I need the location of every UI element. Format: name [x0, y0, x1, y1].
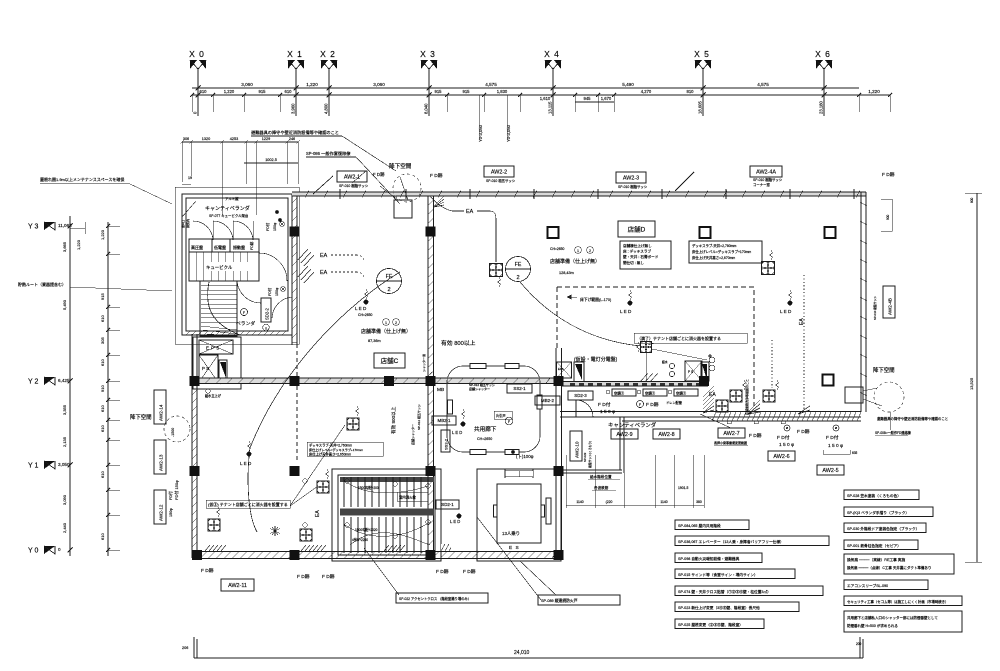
svg-text:給水階段位置: 給水階段位置: [590, 474, 612, 479]
svg-text:CH=2650: CH=2650: [358, 313, 373, 317]
svg-text:AW2-10: AW2-10: [575, 441, 580, 458]
svg-text:F D跡: F D跡: [322, 573, 335, 580]
fan note box (two lines): [844, 554, 954, 574]
dimension line row 1: [192, 87, 859, 89]
counterweight: [546, 498, 551, 524]
svg-text:610: 610: [200, 89, 208, 94]
left dimension chain 1: [69, 216, 71, 556]
smoke barrier note (two lines): [844, 611, 962, 632]
svg-text:1 5 0 φ: 1 5 0 φ: [828, 443, 843, 449]
common corridor boundary (rounded): [447, 366, 540, 452]
svg-text:EA: EA: [320, 270, 328, 276]
legend item: [675, 586, 823, 596]
svg-text:L E D: L E D: [355, 306, 367, 311]
bottom wall: [192, 551, 560, 553]
svg-text:AW2-12: AW2-12: [159, 504, 164, 521]
svg-text:SP-010 樹脂サッシ: SP-010 樹脂サッシ: [618, 184, 648, 189]
svg-text:FD付: FD付: [265, 222, 270, 231]
svg-text:F D跡: F D跡: [373, 171, 385, 178]
svg-text:SP-023 新仕上げ変更（3④⑤壁、階段室）長尺他: SP-023 新仕上げ変更（3④⑤壁、階段室）長尺他: [678, 605, 760, 610]
stair interior label box: [397, 492, 428, 501]
svg-text:SP-025 屋根変更（②③⑤壁、階段室）: SP-025 屋根変更（②③⑤壁、階段室）: [678, 622, 743, 627]
AW2-10 rotated label: [570, 431, 582, 461]
svg-text:FD付 150φ: FD付 150φ: [173, 480, 179, 500]
svg-text:SS2-2: SS2-2: [444, 438, 449, 450]
AW2-3 label: [616, 172, 646, 183]
svg-text:F D跡: F D跡: [882, 171, 895, 178]
svg-text:F: F: [243, 311, 245, 315]
svg-text:空調①: 空調①: [676, 391, 687, 396]
legend item: [675, 619, 764, 629]
shop C lamp: [365, 289, 368, 299]
shop C circled numbers: [383, 319, 390, 326]
svg-text:0: 0: [58, 547, 61, 552]
svg-text:3,960: 3,960: [291, 103, 296, 114]
AW2-14 rotated label: [154, 390, 166, 424]
svg-text:1: 1: [385, 321, 387, 325]
svg-text:FD付: FD付: [168, 491, 173, 500]
svg-text:F D跡: F D跡: [646, 401, 659, 408]
svg-text:低電盤: 低電盤: [214, 244, 226, 250]
svg-text:1,830: 1,830: [497, 89, 508, 94]
svg-text:CH=2650: CH=2650: [477, 437, 492, 441]
svg-text:Y 3: Y 3: [28, 224, 38, 231]
svg-text:Y 0: Y 0: [28, 548, 38, 555]
svg-text:23,180: 23,180: [819, 101, 824, 114]
svg-text:E P S: E P S: [206, 346, 220, 351]
svg-text:避難器具の降守や壁近消防設備等や確認のこと: 避難器具の降守や壁近消防設備等や確認のこと: [877, 416, 948, 421]
svg-text:床仕上げレベル=デッキスラブ+170mm: 床仕上げレベル=デッキスラブ+170mm: [309, 447, 363, 452]
svg-text:EA: EA: [320, 253, 328, 259]
svg-text:305: 305: [100, 337, 105, 344]
svg-text:610: 610: [100, 533, 105, 540]
legend item: [675, 602, 799, 612]
svg-text:1140: 1140: [660, 500, 667, 504]
svg-text:SP-074 壁・天井クロス貼替（①②③④壁・柱位置3㎡）: SP-074 壁・天井クロス貼替（①②③④壁・柱位置3㎡）: [678, 589, 771, 594]
svg-text:SP-028 笠木塗装（くろもの色）: SP-028 笠木塗装（くろもの色）: [847, 493, 901, 498]
svg-text:SS2-1: SS2-1: [513, 386, 526, 391]
svg-text:1500勾配+2020: 1500勾配+2020: [355, 527, 378, 532]
svg-text:店舗準備（仕上げ無）: 店舗準備（仕上げ無）: [550, 258, 600, 265]
svg-text:屋根れ囲1.9m以上メンテナンススペースを確保: 屋根れ囲1.9m以上メンテナンススペースを確保: [40, 176, 124, 182]
floor lowering dashed boundary: [557, 287, 754, 406]
stair treads lower flight: [344, 517, 428, 553]
column markers (hollow): [548, 227, 559, 238]
top wall mullions: [339, 189, 341, 199]
ES right wall: [555, 348, 557, 559]
svg-text:24,010: 24,010: [514, 650, 530, 656]
svg-text:915: 915: [259, 89, 267, 94]
svg-text:床仕上げ天井高さ=2,650mm: 床仕上げ天井高さ=2,650mm: [309, 452, 351, 457]
svg-text:FD付: FD付: [267, 287, 272, 296]
svg-text:2: 2: [395, 321, 397, 325]
svg-text:2: 2: [589, 249, 591, 253]
svg-text:2: 2: [387, 287, 390, 293]
AW2-7 leader: [700, 414, 731, 428]
elevator shaft: [477, 469, 561, 561]
svg-text:SP-012 相五サッシ: SP-012 相五サッシ: [416, 404, 421, 430]
svg-text:SP-086 一般作宴復除僚: SP-086 一般作宴復除僚: [306, 150, 351, 157]
svg-text:SP-010 樹脂サッシ: SP-010 樹脂サッシ: [339, 183, 369, 188]
svg-text:1,220: 1,220: [100, 229, 105, 240]
svg-text:(仮設・電灯分電盤): (仮設・電灯分電盤): [574, 356, 618, 363]
小 dimension cluster under veranda: [565, 455, 567, 508]
svg-text:L E D: L E D: [780, 309, 792, 314]
svg-text:ベランダ: ベランダ: [236, 320, 255, 327]
MB2-2 label: [535, 396, 560, 405]
main top wall (window band): [292, 192, 866, 196]
svg-text:樹脂サッシ(くろもり): 樹脂サッシ(くろもり): [588, 441, 592, 468]
svg-text:1002.5: 1002.5: [265, 158, 277, 162]
svg-text:900: 900: [886, 214, 890, 220]
svg-text:L E D: L E D: [240, 461, 252, 466]
svg-text:キャンティベランダ: キャンティベランダ: [608, 421, 657, 429]
legend item: [675, 553, 762, 563]
veranda door arc SD2-3: [568, 391, 593, 400]
big leader curve shop C: [248, 272, 400, 532]
svg-text:P S: P S: [688, 370, 693, 374]
svg-text:150φ: 150φ: [169, 508, 173, 517]
door arc room right: [259, 253, 287, 281]
temporary board wedge center: [575, 364, 582, 380]
svg-text:3,060: 3,060: [373, 82, 385, 87]
svg-text:MB2-1: MB2-1: [438, 418, 451, 423]
MB2-1 label: [432, 416, 456, 425]
svg-text:SP-098 自動火災報知設備・避難器具: SP-098 自動火災報知設備・避難器具: [678, 556, 740, 561]
deck slab spec note shop C: [307, 442, 383, 456]
water riser mark: [206, 389, 210, 393]
svg-text:3,665: 3,665: [62, 241, 67, 252]
legend item: [844, 523, 926, 533]
svg-text:3,060: 3,060: [241, 82, 253, 87]
svg-text:AW2-4B: AW2-4B: [888, 298, 893, 315]
svg-text:P S: P S: [202, 366, 209, 371]
EPS shaft upper-left: [199, 340, 233, 354]
svg-text:丹波鉄筋: 丹波鉄筋: [594, 485, 609, 490]
svg-text:F D付: F D付: [826, 434, 839, 441]
svg-text:排気内: 排気内: [185, 219, 190, 228]
svg-text:1140: 1140: [576, 500, 583, 504]
shop C lower lamp: [248, 441, 251, 451]
svg-text:F D跡: F D跡: [749, 432, 762, 439]
water branch circles: [709, 357, 715, 363]
right side dimension line: [976, 193, 978, 562]
svg-text:2,135: 2,135: [62, 436, 67, 447]
legend item: [844, 507, 933, 517]
svg-text:SP-010 樹脂サッシ: SP-010 樹脂サッシ: [873, 296, 877, 320]
column markers (filled): [290, 227, 300, 237]
svg-text:F D跡: F D跡: [201, 567, 214, 574]
svg-text:4,575: 4,575: [757, 82, 769, 87]
AW2-2 label: [484, 166, 514, 177]
svg-text:高圧盤: 高圧盤: [191, 244, 203, 250]
AW2-6 label: [768, 451, 795, 461]
svg-text:AW2-4A: AW2-4A: [756, 169, 776, 175]
shop C fire extinguisher circle FE2: [377, 269, 402, 294]
svg-text:SP-(K)3 ベランダ手摺り（ブラック）: SP-(K)3 ベランダ手摺り（ブラック）: [847, 510, 909, 515]
svg-text:13,525: 13,525: [969, 377, 974, 390]
svg-text:キュービクル: キュービクル: [206, 264, 233, 271]
svg-text:振動盤: 振動盤: [233, 244, 245, 250]
svg-text:有効 800以上: 有効 800以上: [441, 339, 476, 347]
svg-text:915: 915: [435, 89, 443, 94]
door panel arcs in room: [193, 221, 253, 240]
shop D name box: [618, 221, 655, 237]
svg-text:店舗棟仕上げ無し: 店舗棟仕上げ無し: [623, 243, 652, 248]
svg-text:SP-008=一般作FD連絡棟: SP-008=一般作FD連絡棟: [875, 430, 912, 435]
svg-text:有効 800以上: 有効 800以上: [390, 406, 397, 434]
legend item: [675, 536, 829, 546]
svg-text:4,800: 4,800: [324, 103, 329, 114]
svg-text:SP-030 外階段ドア塗装色指定（ブラック）: SP-030 外階段ドア塗装色指定（ブラック）: [847, 526, 919, 531]
svg-text:150φ: 150φ: [275, 287, 279, 296]
svg-text:X 3: X 3: [420, 49, 436, 59]
AW2-1 label: [337, 171, 367, 182]
svg-text:F D付: F D付: [777, 434, 790, 441]
svg-text:AW2-14: AW2-14: [159, 404, 164, 421]
sub dimension bracket: [575, 101, 614, 103]
svg-text:デッキスラブ-天井=2,760mm: デッキスラブ-天井=2,760mm: [309, 443, 352, 448]
svg-text:共用廊下と店舗私入口のシャッター部には防煙垂壁として: 共用廊下と店舗私入口のシャッター部には防煙垂壁として: [847, 615, 938, 620]
elevator hall door label SD2-1: [436, 500, 459, 509]
svg-text:FE: FE: [515, 262, 522, 268]
lower-right step extension: [562, 469, 623, 471]
svg-text:AW2-11: AW2-11: [228, 583, 247, 589]
svg-text:片引戸: 片引戸: [496, 413, 506, 418]
leader curve shop D: [520, 282, 641, 346]
svg-text:4,575: 4,575: [485, 82, 497, 87]
svg-text:AW2-7: AW2-7: [723, 431, 739, 437]
svg-text:2: 2: [516, 275, 519, 281]
svg-text:間仕切 : 無し: 間仕切 : 無し: [623, 260, 644, 265]
svg-text:コーナー窓: コーナー窓: [753, 182, 771, 187]
cantilever veranda band: [560, 411, 861, 413]
svg-text:降下空間: 降下空間: [389, 162, 412, 170]
hatched wall pieces near veranda: [703, 386, 714, 413]
svg-text:X 4: X 4: [544, 49, 560, 59]
svg-text:380: 380: [696, 500, 702, 504]
svg-text:F: F: [508, 420, 510, 424]
svg-text:X 2: X 2: [320, 49, 336, 59]
svg-text:610: 610: [100, 315, 105, 322]
AW2-4A label: [750, 166, 782, 177]
shop D fire extinguisher circle FE2: [506, 257, 531, 282]
150 bracket: [823, 450, 850, 454]
stair treads upper flight: [344, 477, 428, 507]
AW2-5 label: [817, 465, 844, 475]
svg-text:87,36m: 87,36m: [368, 339, 381, 343]
svg-text:シャッター用: シャッター用: [421, 354, 426, 372]
svg-text:SP-010 樹脂サッシ: SP-010 樹脂サッシ: [753, 177, 783, 182]
svg-text:(卜)100φ: (卜)100φ: [516, 454, 534, 459]
svg-text:店舗C: 店舗C: [381, 356, 399, 365]
shop C name box: [374, 353, 405, 368]
svg-text:13,115: 13,115: [548, 101, 553, 114]
snowflake symbol: [270, 526, 280, 536]
svg-text:（満了）テナント店舗ごとに消火器を設置する: （満了）テナント店舗ごとに消火器を設置する: [637, 335, 721, 341]
dimension sub-ticks row 2: [190, 93, 194, 97]
svg-text:915: 915: [100, 293, 105, 300]
svg-text:3,090: 3,090: [62, 494, 67, 505]
svg-text:床下げ範囲(L-170): 床下げ範囲(L-170): [580, 297, 612, 302]
legend item: [675, 569, 795, 579]
svg-text:X 0: X 0: [189, 49, 205, 59]
PS shaft upper-left: [199, 355, 218, 382]
svg-text:SP-036,067 エレベーター（13人乗・身障者バリアフ: SP-036,067 エレベーター（13人乗・身障者バリアフリー仕様）: [678, 539, 784, 544]
svg-text:結水: 結水: [662, 360, 668, 364]
svg-text:AW2-3: AW2-3: [623, 175, 639, 181]
cubicle room bottom wall hatch: [186, 331, 286, 335]
legend item: [844, 490, 919, 500]
svg-text:EA: EA: [466, 209, 474, 215]
left outer wall (lower): [191, 334, 193, 558]
svg-text:1 5 0 φ: 1 5 0 φ: [600, 409, 615, 415]
veranda sill ticks: [712, 412, 861, 421]
svg-text:壁・天井 : 石膏ボード: 壁・天井 : 石膏ボード: [623, 254, 659, 259]
svg-text:店舗シャッター: 店舗シャッター: [469, 386, 490, 391]
svg-text:4号B+2260: 4号B+2260: [352, 537, 368, 542]
svg-text:945: 945: [584, 96, 592, 101]
svg-text:降下空間: 降下空間: [873, 366, 895, 374]
svg-text:4253: 4253: [230, 137, 238, 141]
maintenance boundary around cubicle room: [175, 187, 299, 344]
svg-text:AW2-13: AW2-13: [159, 454, 164, 471]
svg-text:CH=2650: CH=2650: [550, 247, 565, 251]
corridor door bumps: [470, 364, 486, 369]
AW2-9 label: [611, 429, 638, 439]
wall vent hatches: [298, 249, 314, 266]
svg-text:AW2-8: AW2-8: [658, 432, 674, 438]
svg-text:MB2-2: MB2-2: [541, 398, 554, 403]
svg-text:1,220: 1,220: [306, 82, 318, 87]
right wall sash ticks: [860, 202, 867, 396]
svg-text:1: 1: [577, 249, 579, 253]
svg-text:5,490: 5,490: [622, 82, 634, 87]
corridor lamp: [461, 422, 466, 427]
svg-text:1320: 1320: [202, 137, 210, 141]
svg-text:エアコンスリーブSL-090: エアコンスリーブSL-090: [847, 583, 888, 588]
svg-text:SP-023: SP-023: [583, 452, 587, 462]
svg-text:L E D: L E D: [450, 519, 460, 524]
room right wall shared with shop C: [291, 196, 293, 345]
equipment clusters shop C: [347, 418, 359, 430]
corridor top wall: [197, 379, 557, 384]
SD2-2 rotated label: [261, 298, 271, 322]
svg-text:給水立上げ: 給水立上げ: [205, 393, 222, 398]
corner box right: [845, 387, 863, 403]
svg-text:4,270: 4,270: [641, 89, 652, 94]
svg-text:AW2-1: AW2-1: [344, 174, 360, 180]
svg-text:F D付: F D付: [598, 401, 611, 408]
elevator rails: [494, 505, 498, 517]
expansion joint diagonals: [313, 176, 333, 194]
svg-text:SD2-3: SD2-3: [574, 393, 587, 398]
stair landing band: [340, 509, 434, 516]
svg-text:F D跡: F D跡: [463, 568, 476, 575]
svg-text:SP-010 相五サッシ: SP-010 相五サッシ: [486, 178, 516, 183]
AW2-12 rotated label: [154, 490, 166, 524]
svg-text:(仮③) テナント店舗ごとに消火器を設置する: (仮③) テナント店舗ごとに消火器を設置する: [208, 501, 288, 507]
door arc to shop C: [272, 297, 292, 318]
svg-text:128,43m: 128,43m: [559, 271, 574, 275]
svg-text:EA: EA: [315, 510, 321, 517]
svg-text:セキュリティ工事（セコム等）は施工しにくく計画（市場時続き）: セキュリティ工事（セコム等）は施工しにくく計画（市場時続き）: [847, 599, 948, 604]
svg-text:(220: (220: [606, 500, 613, 504]
svg-text:SP-001 鉄骨柱色指定（セピア）: SP-001 鉄骨柱色指定（セピア）: [847, 543, 901, 548]
accent cloth note: [396, 593, 488, 603]
hall threshold hatch: [441, 544, 450, 551]
svg-text:915: 915: [463, 89, 471, 94]
svg-text:AW2-6: AW2-6: [773, 454, 789, 460]
svg-text:FD跡: FD跡: [249, 241, 254, 250]
svg-text:防煙垂れ壁 H=500 が求められる: 防煙垂れ壁 H=500 が求められる: [847, 623, 898, 628]
svg-text:SP-015 サインド等（食堂サイン・場内サイン）: SP-015 サインド等（食堂サイン・場内サイン）: [678, 572, 758, 577]
svg-text:店舗乗務洗浄等確認のこと: 店舗乗務洗浄等確認のこと: [744, 379, 749, 415]
legend item: [844, 540, 918, 550]
staircase block: [332, 469, 441, 561]
svg-text:床仕上げレベル=デッキスラブ+170mm: 床仕上げレベル=デッキスラブ+170mm: [692, 249, 751, 254]
svg-text:610: 610: [100, 405, 105, 412]
band lower tick boxes: [727, 421, 731, 424]
elevator door: [504, 469, 506, 478]
svg-text:EA: EA: [799, 318, 805, 325]
svg-text:610: 610: [100, 425, 105, 432]
corridor sensor circle: [505, 417, 513, 425]
cubicle room outer wall: [182, 194, 292, 335]
svg-text:610: 610: [285, 89, 293, 94]
svg-text:換気扇 ────（点線）C工事 天井裏にダクト準備あり: 換気扇 ────（点線）C工事 天井裏にダクト準備あり: [847, 565, 931, 570]
svg-text:空調①: 空調①: [645, 391, 656, 396]
svg-text:L E D: L E D: [452, 430, 462, 435]
svg-text:共用廊下: 共用廊下: [474, 425, 497, 433]
spiral stair in room: [200, 281, 237, 336]
svg-text:貯熱ルート（資器提含む）: 貯熱ルート（資器提含む）: [18, 281, 66, 287]
AW2-13 rotated label: [154, 440, 166, 474]
stair top tread band: [340, 477, 434, 482]
svg-text:610: 610: [100, 471, 105, 478]
svg-text:1901.5: 1901.5: [678, 486, 688, 490]
SS2-2 rotated label: [441, 430, 450, 452]
tenant fire extinguisher note shop D: [634, 333, 747, 343]
air-conditioner window boxes: [612, 389, 636, 396]
shop D spec box 2: [689, 241, 762, 263]
elevator car: [497, 484, 541, 543]
svg-text:キャンティベランダ: キャンティベランダ: [205, 205, 250, 212]
svg-text:降下空間: 降下空間: [130, 413, 152, 421]
svg-text:アルミ縦: アルミ縦: [225, 196, 239, 201]
svg-text:18,605: 18,605: [698, 101, 703, 114]
AW2-7 label: [718, 428, 745, 438]
svg-text:SD2-2: SD2-2: [265, 307, 270, 320]
small horizontal dim line top-left: [70, 227, 85, 229]
wall top hatch block: [434, 196, 444, 207]
svg-text:Y 2: Y 2: [28, 379, 38, 386]
shop D spec box 1: [620, 241, 671, 269]
main right wall: [860, 192, 862, 412]
door threshold hatches on bottom wall: [205, 545, 223, 551]
svg-text:1,220: 1,220: [76, 239, 81, 250]
svg-text:F D跡: F D跡: [797, 428, 810, 435]
svg-text:SP-077 キュービクル架台: SP-077 キュービクル架台: [209, 213, 249, 218]
fire door note: [538, 595, 620, 605]
AW2-8 label: [653, 429, 680, 439]
air-con sleeve note: [844, 580, 928, 590]
svg-text:1,220: 1,220: [224, 89, 235, 94]
svg-text:800: 800: [970, 197, 974, 203]
svg-text:200: 200: [856, 642, 862, 646]
svg-text:空調①: 空調①: [614, 391, 625, 396]
PS shaft right of shop D wall: [685, 361, 702, 381]
